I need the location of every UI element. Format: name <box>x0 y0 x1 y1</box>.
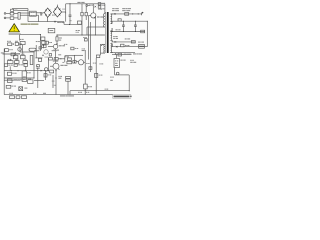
value label Q2 <box>59 45 65 46</box>
resistor R15e <box>41 37 45 40</box>
LED D13 <box>116 72 119 75</box>
resistor R29 <box>131 41 135 43</box>
resistor R15d <box>49 54 51 56</box>
wire <box>34 79 44 81</box>
resistor R41 <box>44 74 47 77</box>
wire <box>15 52 17 55</box>
node j3 <box>81 34 82 35</box>
node j15 <box>135 21 136 22</box>
resistor R27b <box>14 64 17 66</box>
capacitor C5 <box>69 4 72 25</box>
terminal OUT2 <box>141 30 145 33</box>
wire <box>20 14 29 16</box>
wire <box>19 35 21 41</box>
transistor Q7 <box>18 48 22 52</box>
resistor R25b <box>7 79 12 82</box>
diode D6 <box>95 6 97 8</box>
value label D13 <box>130 60 136 63</box>
wire <box>58 58 65 60</box>
transformer T1 core <box>106 12 109 53</box>
wire <box>55 49 57 64</box>
value label q2b <box>58 54 61 55</box>
wire output rail4 <box>111 41 135 43</box>
terminal X2 <box>16 96 20 99</box>
value label R10L <box>48 42 52 43</box>
resistor R20 <box>13 55 18 58</box>
diode D5 <box>54 21 56 23</box>
value label Q2b <box>53 50 59 51</box>
resistor R19 <box>42 45 46 47</box>
value label row2a <box>8 59 12 60</box>
wire left bus <box>3 49 5 95</box>
wire <box>95 58 97 95</box>
value label d9 <box>64 44 67 45</box>
value label l53 <box>52 81 55 82</box>
value label row1b <box>21 54 25 55</box>
node j6 <box>55 70 56 71</box>
node j27 <box>63 62 64 63</box>
value label r37 <box>16 53 20 54</box>
value label r43 <box>11 86 16 87</box>
value label VR1 <box>7 41 11 42</box>
diode D12 <box>115 53 117 55</box>
wire <box>20 34 41 36</box>
resistor R18 <box>42 41 46 44</box>
wire <box>115 74 130 76</box>
wire <box>22 52 24 55</box>
wire <box>65 4 67 14</box>
terminal J1 AC line <box>4 13 10 15</box>
wire <box>114 68 116 75</box>
node j1 <box>69 24 70 25</box>
resistor R15c <box>39 47 42 49</box>
transformer T1 secondary S3 <box>111 44 113 53</box>
capacitor C14 <box>134 21 137 31</box>
node j20 <box>11 70 12 71</box>
wire loop C18 <box>65 56 75 63</box>
value label C5 <box>69 20 71 21</box>
node j7 <box>55 77 56 78</box>
resistor R10 <box>56 35 58 44</box>
wire <box>34 50 39 52</box>
node j19 <box>43 45 44 46</box>
wire output rail1 <box>111 13 142 15</box>
value label PC1 <box>82 48 85 51</box>
transistor Q4 <box>44 50 48 54</box>
transformer T1 secondary S1 <box>111 14 113 24</box>
resistor R4 <box>78 21 82 24</box>
node j15b <box>147 21 148 22</box>
diode D15 <box>13 43 14 44</box>
node check <box>101 44 103 45</box>
diode D9 <box>56 43 57 44</box>
resistor R14 <box>54 58 58 60</box>
value label R26 <box>28 79 31 80</box>
capacitor C6 <box>85 4 87 20</box>
wire <box>95 26 105 28</box>
line filter FL1 <box>18 12 20 19</box>
wire right bus <box>146 21 148 47</box>
value label r34 <box>12 73 16 74</box>
value label row2c <box>23 59 27 60</box>
value label l53b <box>52 85 55 86</box>
node j11 <box>34 78 35 79</box>
node j18 <box>129 90 130 91</box>
wire <box>111 28 113 32</box>
wire snubber left <box>86 27 88 35</box>
capacitor C11 <box>66 76 71 94</box>
choke L1 <box>30 11 37 16</box>
node j28 <box>74 62 75 63</box>
value label r4b <box>76 30 80 33</box>
resistor R1 <box>10 12 18 15</box>
value label C7 <box>98 9 102 10</box>
resistor R38 <box>96 55 99 58</box>
resistor R23 <box>15 61 19 64</box>
terminal X1 <box>9 96 14 99</box>
transistor Q1 <box>89 4 96 19</box>
resistor R22a <box>7 61 13 64</box>
wire <box>63 22 65 25</box>
value label C13b <box>125 38 130 39</box>
wire <box>44 70 46 80</box>
value label r39 <box>86 63 89 64</box>
wire <box>35 45 37 58</box>
value label b2 <box>86 92 89 93</box>
value label BR1 <box>62 9 66 10</box>
diode D8 <box>42 55 43 56</box>
wire <box>112 54 132 56</box>
wire <box>42 44 44 48</box>
wire <box>47 17 49 21</box>
wire <box>62 11 66 13</box>
wire <box>65 12 67 22</box>
value label r39b <box>93 63 96 64</box>
node j13 <box>138 13 139 14</box>
value label r40 <box>99 75 103 76</box>
resistor R32 <box>118 53 121 56</box>
resistor R37 <box>11 53 15 56</box>
value label F1 <box>14 10 17 11</box>
wire bottom bus <box>4 94 113 96</box>
value label br mid <box>52 15 56 16</box>
node j22 <box>25 70 26 71</box>
value label c9c <box>45 57 48 58</box>
resistor R17 <box>20 41 25 44</box>
value label Q1 <box>97 16 104 17</box>
terminal X3 <box>21 96 26 99</box>
value label C30 <box>105 89 109 90</box>
value label R9 <box>89 5 94 6</box>
bridge rectifier BR1 <box>44 7 61 18</box>
value label q2a <box>52 50 57 51</box>
wire <box>38 15 40 21</box>
resistor R33 <box>84 84 88 89</box>
test point TP1 <box>86 5 91 7</box>
wire <box>28 21 64 23</box>
wire <box>9 66 11 70</box>
caption AC input <box>21 24 39 25</box>
value label r36 <box>15 41 18 42</box>
value label C18 <box>65 56 69 57</box>
value label R25 <box>53 61 58 62</box>
wire <box>128 75 130 91</box>
resistor R2 <box>10 17 18 20</box>
wire <box>39 35 41 51</box>
resistor R9 <box>98 3 101 5</box>
value label R32 <box>124 54 132 55</box>
resistor R16b <box>71 47 74 50</box>
node j12 <box>132 13 133 14</box>
wire <box>19 44 21 52</box>
resistor R12 <box>50 70 54 73</box>
wire <box>37 68 39 88</box>
wire <box>4 70 48 72</box>
wire <box>35 57 42 59</box>
warning caption <box>9 33 21 34</box>
transistor Q2 <box>48 44 58 48</box>
node j16 <box>112 31 113 32</box>
value label C12 <box>122 8 131 11</box>
resistor R16 <box>73 60 78 63</box>
resistor R13 <box>49 58 53 60</box>
wire <box>56 5 58 7</box>
node j8 <box>60 58 61 59</box>
wire output rail3 <box>110 31 145 33</box>
node VOUT plus <box>142 12 144 15</box>
diode D11 <box>115 41 117 43</box>
transistor Q3 <box>50 63 59 70</box>
diode D10 <box>114 13 116 15</box>
wire <box>36 12 40 14</box>
node j17 <box>123 31 124 32</box>
wire <box>4 77 34 79</box>
wire <box>64 23 82 25</box>
wire <box>57 34 105 36</box>
value label u1r <box>27 72 31 73</box>
wire snubber right <box>94 27 96 35</box>
node j9 <box>48 70 49 71</box>
transformer T1 secondary S2 <box>111 28 113 42</box>
wire <box>4 79 20 81</box>
wire <box>3 53 20 55</box>
wire <box>94 17 96 27</box>
wire <box>89 22 91 72</box>
value label r16b <box>75 48 78 49</box>
value label AC <box>1 52 4 53</box>
value label D10 <box>112 8 119 11</box>
wire <box>33 52 35 78</box>
IC U2 <box>114 55 119 68</box>
transformer T1 primary winding <box>104 4 105 27</box>
value label R33 <box>88 86 92 87</box>
resistor R40 <box>95 73 98 77</box>
wire <box>74 54 83 56</box>
terminal J2 AC neutral <box>4 17 10 19</box>
wire <box>18 43 22 45</box>
wire snubber top <box>87 26 95 28</box>
IC U1 <box>22 71 27 82</box>
node j14 <box>123 21 124 22</box>
capacitor C13 <box>122 21 125 31</box>
value label D5 <box>57 22 64 23</box>
value label R17 <box>20 39 24 40</box>
wire <box>47 58 49 71</box>
node j25 <box>85 90 86 91</box>
value label R22 <box>13 79 23 80</box>
value label x1t <box>9 93 13 94</box>
resistor R21 <box>21 55 26 58</box>
wire <box>52 75 54 88</box>
transistor Q5 <box>45 68 48 71</box>
wire <box>84 50 86 84</box>
potentiometer VR1 <box>8 43 12 46</box>
value label rail3 <box>116 29 121 30</box>
resistor R27c <box>24 64 28 67</box>
value label row2b <box>15 59 18 60</box>
capacitor C1 <box>41 12 42 16</box>
diode D16 <box>41 70 42 71</box>
wire <box>84 89 86 95</box>
resistor R24 <box>23 61 28 64</box>
value label Q3 <box>60 65 67 66</box>
wire <box>81 24 83 35</box>
node j24 <box>96 90 97 91</box>
node j21 <box>18 70 19 71</box>
resistor R34 <box>7 72 11 75</box>
wire <box>20 51 35 53</box>
transistor Q6 <box>78 60 85 65</box>
wire output rail2 <box>110 20 147 22</box>
value label C11 <box>58 76 62 79</box>
capacitor C9 <box>30 55 33 64</box>
wire B+ rail <box>66 3 105 5</box>
node j10 <box>40 34 41 35</box>
value label b1 <box>78 92 82 93</box>
value label r27b <box>18 64 23 65</box>
capacitor C16 <box>121 44 124 47</box>
resistor R15b <box>45 41 48 44</box>
wire <box>9 59 11 61</box>
wire <box>16 59 18 61</box>
resistor R36 <box>15 42 18 45</box>
node j4 <box>95 16 96 17</box>
value label R35 <box>110 77 114 81</box>
node j17b <box>135 31 136 32</box>
node j2 <box>69 3 70 4</box>
wire output rail5 <box>111 46 147 48</box>
fuse F1 <box>11 9 28 11</box>
resistor C9b <box>37 65 40 67</box>
resistor R43 <box>6 85 11 88</box>
transformer T1 aux winding <box>101 44 105 55</box>
watermark label <box>113 95 132 99</box>
value label r27a <box>8 65 12 66</box>
resistor R42 <box>67 61 72 64</box>
wire <box>12 8 28 10</box>
value label c7t <box>102 3 105 6</box>
value label T1 <box>100 8 104 9</box>
wire output rail6 <box>110 52 135 54</box>
value label q6t <box>83 37 87 38</box>
resistor C9c <box>38 58 41 61</box>
diode D7 <box>19 87 23 91</box>
wire <box>25 66 27 70</box>
diode D14 <box>116 46 118 48</box>
resistor R39 <box>89 67 92 70</box>
capacitor C7 <box>98 6 101 8</box>
caption bottom <box>60 95 74 96</box>
resistor R31 <box>139 47 145 49</box>
wire <box>22 45 24 52</box>
capacitor C18b <box>67 58 71 60</box>
capacitor C12 <box>125 13 129 16</box>
resistor R28 <box>118 19 121 21</box>
value label c16 <box>125 45 129 46</box>
value label R3 C6 <box>77 2 84 3</box>
relay K2 <box>48 28 55 32</box>
value label d7r <box>24 88 27 89</box>
node j5 <box>95 34 96 35</box>
resistor R30 <box>139 45 145 47</box>
value label bottom1 <box>33 93 36 94</box>
value label row1a <box>14 54 18 55</box>
value label C31 <box>133 53 142 54</box>
wire <box>69 91 71 95</box>
value label r40b <box>99 63 103 64</box>
wire <box>55 69 57 94</box>
value label D11 <box>113 36 118 39</box>
resistor R26 <box>28 80 33 84</box>
wire <box>36 14 38 16</box>
value label R15 <box>36 41 40 42</box>
value label R10 <box>59 38 62 41</box>
capacitor C8 <box>29 48 36 51</box>
resistor R27a <box>4 64 7 67</box>
wire <box>42 12 45 15</box>
value label q2c <box>52 59 56 60</box>
node j23 <box>20 44 21 45</box>
value label r30t <box>138 42 144 43</box>
wire <box>70 90 129 92</box>
warning triangle W1 <box>9 24 20 32</box>
wire <box>88 15 90 59</box>
wire <box>20 12 29 14</box>
resistor R3 <box>81 4 83 25</box>
capacitor C15 <box>84 39 87 41</box>
value label k1 <box>9 49 13 50</box>
wire <box>27 9 29 22</box>
value label bottom2 <box>43 93 46 94</box>
value label c9b <box>36 68 39 69</box>
value label r41 <box>48 74 52 75</box>
value label IC2 <box>120 60 125 61</box>
relay K1 <box>5 49 9 52</box>
node j26 <box>36 65 39 68</box>
